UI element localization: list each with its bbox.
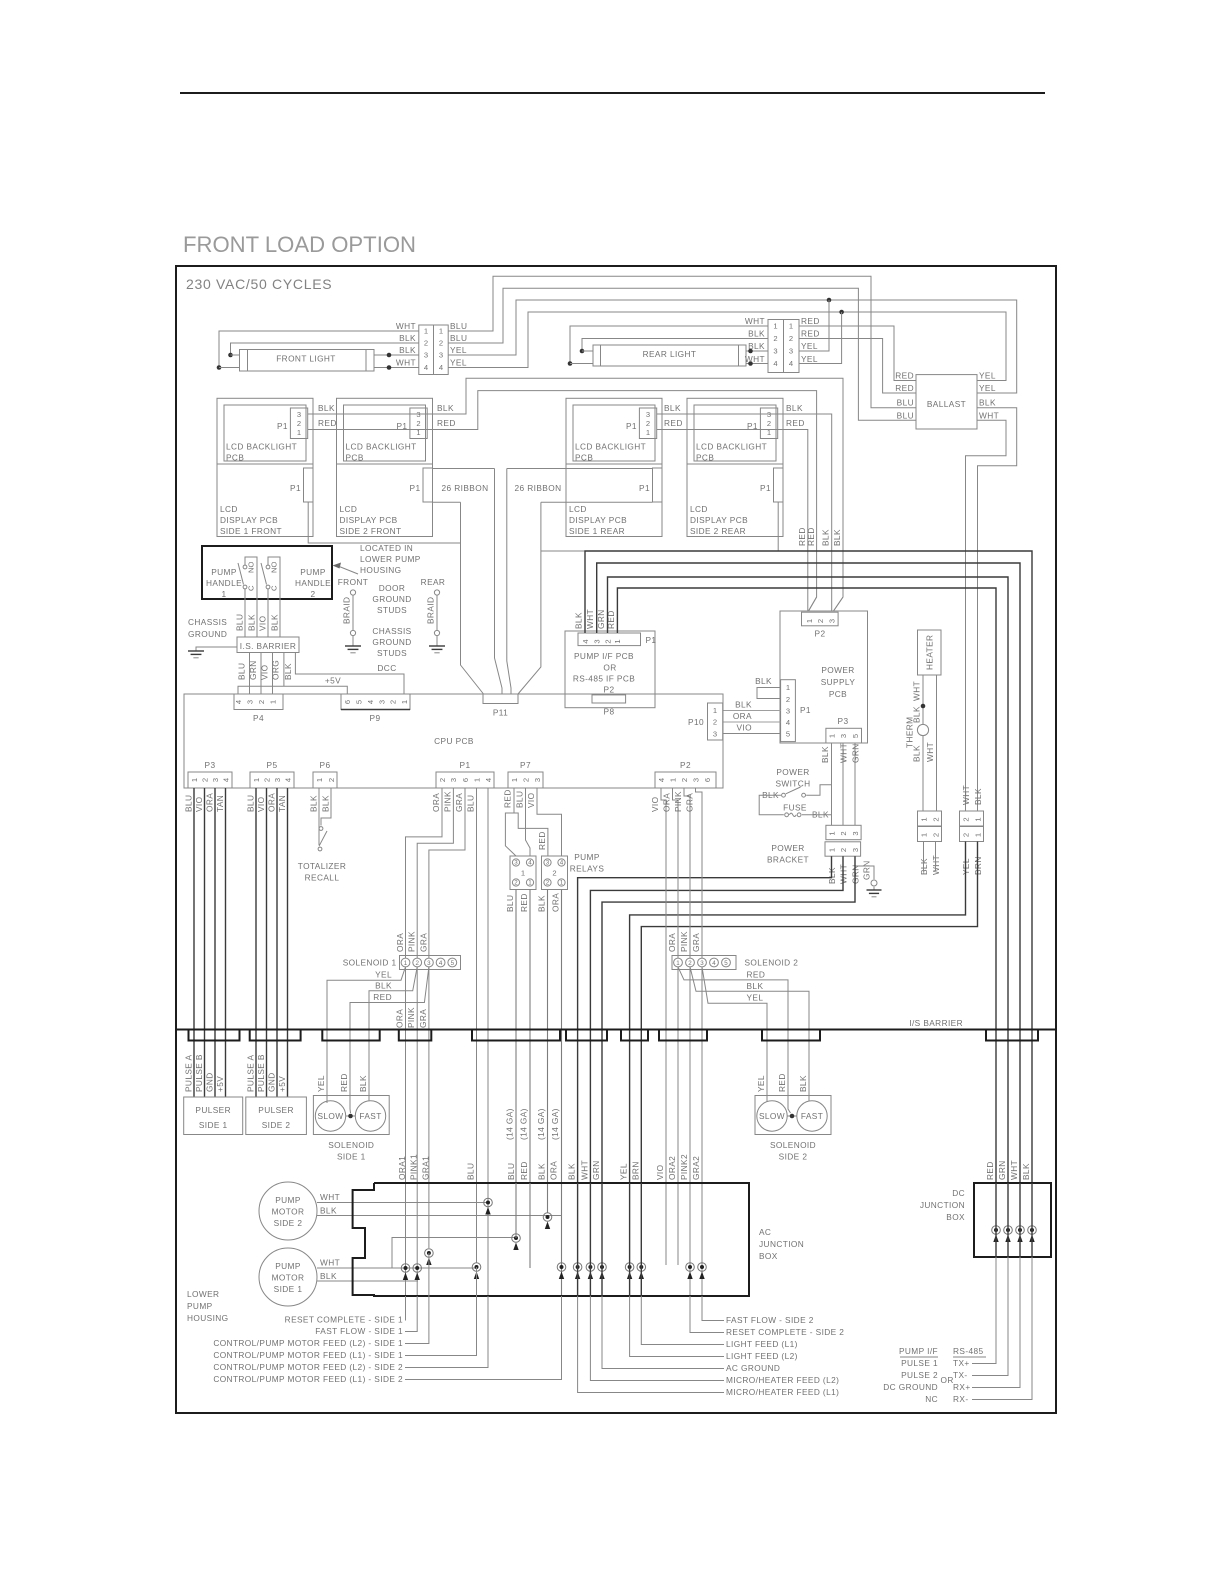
svg-text:PUMP: PUMP: [211, 567, 237, 577]
svg-text:BLK: BLK: [375, 980, 392, 990]
solenoid 2 connector: [672, 956, 736, 970]
svg-text:4: 4: [366, 700, 375, 704]
svg-text:BOX: BOX: [946, 1212, 965, 1222]
svg-text:1: 1: [472, 778, 481, 782]
wire BLK motor side 1: [317, 1280, 418, 1282]
svg-text:BLK: BLK: [748, 329, 765, 339]
svg-text:3: 3: [789, 347, 793, 356]
svg-text:26 RIBBON: 26 RIBBON: [442, 483, 489, 493]
drawing border: [176, 266, 1056, 1413]
DC box terminals: [992, 1226, 1001, 1235]
svg-text:BLK: BLK: [832, 529, 842, 546]
svg-text:4: 4: [786, 718, 790, 727]
svg-text:STUDS: STUDS: [377, 648, 407, 658]
svg-text:4: 4: [581, 639, 590, 643]
svg-text:1: 1: [827, 734, 836, 738]
svg-text:HEATER: HEATER: [925, 635, 935, 670]
svg-text:1: 1: [252, 778, 261, 782]
svg-text:DISPLAY PCB: DISPLAY PCB: [690, 515, 748, 525]
svg-text:HOUSING: HOUSING: [360, 565, 402, 575]
svg-text:(14 GA): (14 GA): [550, 1108, 560, 1140]
svg-text:RED: RED: [318, 418, 337, 428]
svg-text:DC GROUND: DC GROUND: [883, 1382, 938, 1392]
svg-text:RX+: RX+: [953, 1382, 971, 1392]
svg-text:POWER: POWER: [821, 665, 854, 675]
svg-text:DOOR: DOOR: [379, 583, 406, 593]
wire BLK 14GA relay2 to AC box: [547, 890, 549, 1214]
wire GRN bracket to AC box: [602, 856, 855, 1183]
svg-text:SIDE 2: SIDE 2: [262, 1120, 291, 1130]
svg-text:VIO: VIO: [258, 615, 268, 631]
svg-text:ORA: ORA: [267, 793, 277, 812]
svg-text:BLU: BLU: [246, 795, 256, 812]
wire VIO P7-3 to relay 2: [537, 788, 562, 856]
AC box terminals: [401, 1264, 410, 1273]
power supply PCB: [780, 611, 868, 743]
svg-text:3: 3: [839, 734, 848, 738]
wire switch left to fuse: [759, 795, 784, 815]
svg-text:YEL: YEL: [801, 354, 818, 364]
svg-text:1: 1: [713, 706, 717, 715]
svg-text:TOTALIZER: TOTALIZER: [298, 861, 346, 871]
svg-text:TX-: TX-: [953, 1370, 968, 1380]
svg-text:P2: P2: [680, 760, 691, 770]
pump relay 2: [542, 856, 568, 890]
svg-text:C: C: [270, 585, 279, 591]
svg-text:PULSER: PULSER: [195, 1105, 231, 1115]
svg-text:4: 4: [484, 778, 493, 782]
barrier brackets: [189, 1030, 240, 1041]
svg-text:SOLENOID: SOLENOID: [770, 1140, 816, 1150]
wire BLU P1-pin1 to AC box: [476, 788, 478, 1263]
svg-text:BLK: BLK: [537, 1163, 547, 1180]
svg-text:FAST FLOW - SIDE 1: FAST FLOW - SIDE 1: [315, 1326, 403, 1336]
svg-text:BLU: BLU: [184, 795, 194, 812]
svg-text:+5V: +5V: [215, 1076, 225, 1092]
wire BLK P10-1 to P1-3: [723, 710, 781, 712]
svg-text:1: 1: [919, 833, 928, 837]
svg-text:2: 2: [931, 833, 940, 837]
svg-text:2: 2: [680, 778, 689, 782]
wire YEL solenoid 2: [702, 967, 767, 1097]
wires solenoid 1 to AC box: [405, 967, 407, 1296]
svg-text:GRN: GRN: [862, 860, 872, 880]
connector pair heater BLK WHT: [918, 811, 942, 826]
svg-text:26 RIBBON: 26 RIBBON: [515, 483, 562, 493]
svg-text:P1: P1: [760, 483, 771, 493]
connector P2 CPU: [655, 772, 716, 788]
connector pair ballast BLK WHT to YEL BRN: [960, 811, 984, 826]
svg-text:RED: RED: [537, 831, 547, 850]
svg-text:VIO: VIO: [526, 792, 536, 808]
svg-text:2: 2: [327, 778, 336, 782]
svg-text:SWITCH: SWITCH: [775, 779, 810, 789]
svg-text:CONTROL/PUMP MOTOR FEED (L1) -: CONTROL/PUMP MOTOR FEED (L1) - SIDE 1: [213, 1350, 403, 1360]
svg-text:C: C: [247, 585, 256, 591]
wire slant marks into P2: [809, 597, 817, 611]
svg-text:LCD: LCD: [340, 504, 358, 514]
svg-text:PCB: PCB: [346, 452, 364, 462]
totalizer recall switch: [318, 788, 320, 845]
svg-text:2: 2: [388, 700, 397, 704]
svg-text:BLK: BLK: [979, 398, 996, 408]
svg-text:PINK: PINK: [679, 931, 689, 952]
svg-text:RED: RED: [519, 1161, 529, 1180]
svg-text:DISPLAY PCB: DISPLAY PCB: [340, 515, 398, 525]
svg-text:(14 GA): (14 GA): [505, 1108, 515, 1140]
svg-text:BLK: BLK: [748, 341, 765, 351]
svg-text:P8: P8: [604, 707, 615, 717]
svg-text:RELAYS: RELAYS: [570, 864, 605, 874]
svg-text:GRN: GRN: [248, 660, 258, 680]
svg-text:2: 2: [961, 817, 970, 821]
svg-text:1: 1: [919, 817, 928, 821]
wire RED front backlights: [308, 391, 817, 611]
svg-text:AC GROUND: AC GROUND: [726, 1363, 780, 1373]
svg-text:LOCATED IN: LOCATED IN: [360, 543, 413, 553]
svg-text:1: 1: [439, 327, 443, 336]
svg-text:YEL: YEL: [316, 1075, 326, 1092]
wires P5 to pulser side 2: [255, 788, 257, 1097]
svg-text:BALLAST: BALLAST: [927, 399, 966, 409]
svg-text:2: 2: [786, 695, 790, 704]
svg-text:BLK: BLK: [820, 746, 830, 763]
svg-text:RED: RED: [373, 992, 392, 1002]
svg-text:3: 3: [533, 778, 542, 782]
svg-text:GND: GND: [205, 1072, 215, 1092]
wire BLK P3-1 to bracket: [831, 743, 833, 825]
svg-text:PUMP: PUMP: [574, 852, 600, 862]
connector P9: [341, 694, 410, 710]
svg-text:2: 2: [646, 419, 650, 428]
pump handle switches box: [202, 546, 332, 599]
pulser side 1: [184, 1097, 243, 1135]
svg-text:WHT: WHT: [745, 354, 765, 364]
svg-text:BLK: BLK: [321, 795, 331, 812]
svg-text:RED: RED: [339, 1073, 349, 1092]
svg-text:PUMP: PUMP: [187, 1301, 213, 1311]
svg-text:P1: P1: [410, 483, 421, 493]
svg-text:+5V: +5V: [325, 676, 341, 686]
svg-text:REAR: REAR: [421, 577, 446, 587]
svg-text:OR: OR: [941, 1375, 954, 1385]
svg-text:CONTROL/PUMP MOTOR FEED (L2) -: CONTROL/PUMP MOTOR FEED (L2) - SIDE 1: [213, 1338, 403, 1348]
svg-text:RED: RED: [801, 329, 820, 339]
svg-text:NC: NC: [925, 1394, 938, 1404]
svg-text:VIO: VIO: [260, 664, 270, 680]
svg-text:2: 2: [262, 778, 271, 782]
connector P1 CPU: [436, 772, 494, 788]
svg-text:1: 1: [404, 960, 408, 967]
svg-text:RED: RED: [519, 893, 529, 912]
svg-text:ORA: ORA: [733, 711, 752, 721]
svg-text:3: 3: [514, 860, 518, 867]
svg-text:3: 3: [593, 639, 602, 643]
svg-text:BLU: BLU: [506, 1163, 516, 1180]
svg-text:6: 6: [461, 778, 470, 782]
LCD backlight PCB SIDE 1 FRONT: [217, 398, 313, 464]
svg-text:BLU: BLU: [897, 398, 914, 408]
svg-text:BLK: BLK: [437, 403, 454, 413]
svg-text:RED: RED: [606, 610, 616, 629]
svg-text:4: 4: [789, 359, 793, 368]
svg-text:3: 3: [424, 351, 428, 360]
svg-text:3: 3: [273, 778, 282, 782]
svg-text:YEL: YEL: [979, 371, 996, 381]
svg-text:RED: RED: [801, 316, 820, 326]
svg-text:DISPLAY PCB: DISPLAY PCB: [220, 515, 278, 525]
wires ORA PINK GRA P1 to solenoid 1: [406, 788, 443, 958]
svg-text:BLK: BLK: [399, 345, 416, 355]
svg-text:BLU: BLU: [897, 410, 914, 420]
connector P3 power supply: [826, 728, 862, 743]
svg-text:1: 1: [190, 778, 199, 782]
svg-text:P4: P4: [253, 713, 264, 723]
svg-text:ORA: ORA: [431, 793, 441, 812]
svg-text:3: 3: [416, 410, 420, 419]
svg-text:RED: RED: [747, 969, 766, 979]
svg-text:1: 1: [510, 778, 519, 782]
pump relay 1: [510, 856, 536, 890]
wire WHT motor side 1: [317, 1267, 477, 1269]
svg-text:STUDS: STUDS: [377, 605, 407, 615]
svg-text:MOTOR: MOTOR: [272, 1273, 305, 1283]
LCD backlight PCB SIDE 2 FRONT: [337, 398, 433, 464]
svg-text:FAST FLOW - SIDE 2: FAST FLOW - SIDE 2: [726, 1315, 814, 1325]
connector P10: [708, 703, 723, 740]
svg-text:WHT: WHT: [396, 321, 416, 331]
connector P11: [483, 694, 518, 704]
svg-text:4: 4: [560, 860, 564, 867]
svg-text:SIDE 2 FRONT: SIDE 2 FRONT: [340, 526, 402, 536]
svg-text:BLK: BLK: [309, 795, 319, 812]
svg-text:BRAID: BRAID: [342, 597, 352, 624]
I.S. barrier module: [237, 637, 299, 653]
svg-text:RED: RED: [437, 418, 456, 428]
LCD backlight PCB SIDE 2 REAR: [687, 398, 783, 464]
svg-text:P10: P10: [688, 717, 704, 727]
svg-text:PULSE B: PULSE B: [194, 1054, 204, 1092]
svg-text:PUMP: PUMP: [275, 1195, 301, 1205]
svg-text:1: 1: [786, 683, 790, 692]
svg-text:3: 3: [449, 778, 458, 782]
svg-text:HOUSING: HOUSING: [187, 1313, 229, 1323]
svg-text:WHT: WHT: [1009, 1160, 1019, 1180]
svg-text:GROUND: GROUND: [188, 629, 227, 639]
svg-text:1: 1: [676, 960, 680, 967]
pump handle switch 1: [243, 565, 247, 569]
svg-text:SOLENOID 2: SOLENOID 2: [745, 958, 799, 968]
pump handle switch 2: [266, 565, 270, 569]
LCD display PCB SIDE 2 FRONT: [337, 464, 433, 537]
svg-text:RED: RED: [503, 789, 513, 808]
wires DC box to RS-485 callouts: [972, 1257, 996, 1364]
svg-text:ORA: ORA: [395, 933, 405, 952]
pump motor side 2: [259, 1182, 317, 1240]
wire DCC: [295, 653, 404, 695]
svg-text:GRA: GRA: [418, 933, 428, 952]
svg-text:SIDE 2 REAR: SIDE 2 REAR: [690, 526, 746, 536]
svg-text:PCB: PCB: [575, 452, 593, 462]
svg-text:PULSE A: PULSE A: [184, 1055, 194, 1092]
front light lamp: [240, 350, 375, 372]
wire switch right to P3 BLK: [806, 785, 831, 795]
wire RED 14GA relay1 to AC box: [529, 890, 531, 1184]
svg-text:BLU: BLU: [466, 1163, 476, 1180]
svg-text:LOWER: LOWER: [187, 1289, 219, 1299]
ribbon cable side 1 front: [308, 502, 460, 543]
svg-text:BLK: BLK: [747, 981, 764, 991]
ribbon bus side 2 front to P11: [433, 468, 495, 470]
svg-text:BLK: BLK: [786, 403, 803, 413]
svg-text:2: 2: [514, 880, 518, 887]
wire RED solenoid 1: [350, 967, 429, 1097]
svg-text:SLOW: SLOW: [759, 1111, 785, 1121]
wire WHT front light pin1: [219, 331, 419, 368]
wire BLU front pin1 to ballast BLU: [448, 276, 916, 408]
svg-text:SIDE 1: SIDE 1: [274, 1284, 303, 1294]
svg-text:BLK: BLK: [973, 788, 983, 805]
svg-text:BLK: BLK: [318, 403, 335, 413]
svg-text:1: 1: [827, 831, 836, 835]
svg-text:SIDE 2: SIDE 2: [779, 1152, 808, 1162]
svg-text:4: 4: [657, 778, 666, 782]
svg-text:JUNCTION: JUNCTION: [920, 1200, 965, 1210]
svg-text:2: 2: [200, 778, 209, 782]
svg-text:1: 1: [789, 322, 793, 331]
wires AC mains columns inside box: [577, 1183, 579, 1296]
wire YEL front pin3 to ballast YEL2: [448, 300, 1017, 393]
svg-text:2: 2: [773, 334, 777, 343]
svg-text:WHT: WHT: [585, 609, 595, 629]
svg-text:RS-485 IF PCB: RS-485 IF PCB: [573, 674, 635, 684]
svg-text:PUMP I/F PCB: PUMP I/F PCB: [574, 651, 634, 661]
svg-text:PULSER: PULSER: [258, 1105, 294, 1115]
svg-text:230 VAC/50 CYCLES: 230 VAC/50 CYCLES: [186, 276, 332, 292]
wire GRN P3-5 to bracket: [854, 743, 856, 825]
svg-text:ORA: ORA: [551, 893, 561, 912]
svg-text:GRA: GRA: [691, 933, 701, 952]
svg-text:BLK: BLK: [247, 614, 257, 631]
wire +5V ORG: [283, 653, 285, 687]
svg-text:LCD: LCD: [690, 504, 708, 514]
connector P3 CPU: [188, 772, 232, 788]
svg-text:1: 1: [613, 639, 622, 643]
svg-text:4: 4: [283, 778, 292, 782]
svg-text:RESET COMPLETE - SIDE 1: RESET COMPLETE - SIDE 1: [285, 1315, 403, 1325]
wire WHT ballast to connector pair: [966, 420, 1007, 811]
wire BLK stub power supply P1 pin1: [757, 688, 781, 699]
svg-text:MICRO/HEATER FEED (L2): MICRO/HEATER FEED (L2): [726, 1375, 839, 1385]
top rule: [180, 92, 1045, 94]
connector P2 power supply: [802, 612, 839, 626]
connector J2 rear light: [768, 320, 784, 373]
svg-text:VIO: VIO: [655, 1164, 665, 1180]
svg-text:BLK: BLK: [567, 1163, 577, 1180]
svg-text:GRN: GRN: [997, 1160, 1007, 1180]
svg-text:VIO: VIO: [194, 796, 204, 812]
svg-text:2: 2: [310, 589, 315, 599]
svg-text:1: 1: [528, 880, 532, 887]
wire GRN pump I/F to DC junction: [608, 577, 1009, 1183]
svg-text:+5V: +5V: [277, 1076, 287, 1092]
svg-text:1: 1: [297, 428, 301, 437]
svg-text:P5: P5: [267, 760, 278, 770]
svg-text:BLK: BLK: [537, 895, 547, 912]
svg-text:RED: RED: [806, 527, 816, 546]
svg-text:4: 4: [221, 778, 230, 782]
svg-text:RESET COMPLETE - SIDE 2: RESET COMPLETE - SIDE 2: [726, 1327, 844, 1337]
svg-text:P1: P1: [626, 421, 637, 431]
svg-text:ORA1: ORA1: [397, 1156, 407, 1180]
svg-text:AC: AC: [759, 1227, 771, 1237]
svg-text:PCB: PCB: [696, 452, 714, 462]
svg-text:RED: RED: [985, 1161, 995, 1180]
svg-text:REAR LIGHT: REAR LIGHT: [643, 349, 697, 359]
svg-text:YEL: YEL: [619, 1163, 629, 1180]
svg-text:3: 3: [691, 778, 700, 782]
svg-text:FRONT LIGHT: FRONT LIGHT: [276, 354, 336, 364]
wire BLK rear light pin2: [582, 339, 768, 352]
wire ORA 14GA relay2 to AC box: [561, 890, 563, 1297]
wire WHT front light pin4: [374, 367, 419, 369]
svg-text:PUMP: PUMP: [300, 567, 326, 577]
wire WHT pump I/F to DC junction: [597, 563, 1020, 1183]
svg-text:2: 2: [552, 869, 556, 878]
wire RED P7-1 to relays: [505, 788, 516, 856]
DC junction box: [974, 1183, 1051, 1257]
wire ORA P10-2 to P1-4: [723, 721, 781, 723]
svg-text:PULSE 1: PULSE 1: [901, 1358, 938, 1368]
svg-text:2: 2: [416, 419, 420, 428]
svg-text:BLK: BLK: [270, 614, 280, 631]
svg-text:RED: RED: [786, 418, 805, 428]
svg-text:P1: P1: [460, 760, 471, 770]
svg-text:SIDE 1: SIDE 1: [199, 1120, 228, 1130]
svg-text:3: 3: [827, 619, 836, 623]
svg-text:PCB: PCB: [226, 452, 244, 462]
wire WHT rear light pin4: [746, 363, 768, 365]
wire WHT P3-3 to bracket: [842, 743, 844, 825]
wires pump handles to I.S. barrier: [244, 599, 246, 637]
wire BLK front light pin3: [374, 354, 419, 356]
svg-text:2: 2: [961, 833, 970, 837]
svg-text:LIGHT FEED (L1): LIGHT FEED (L1): [726, 1339, 798, 1349]
wires control columns below terminals: [428, 1253, 430, 1296]
svg-text:1: 1: [268, 700, 277, 704]
svg-text:5: 5: [724, 960, 728, 967]
svg-text:LIGHT FEED (L2): LIGHT FEED (L2): [726, 1351, 798, 1361]
svg-text:3: 3: [851, 831, 860, 835]
wire RED pump I/F to DC junction: [617, 588, 996, 1183]
svg-text:LCD BACKLIGHT: LCD BACKLIGHT: [346, 442, 417, 452]
svg-text:PINK: PINK: [407, 931, 417, 952]
svg-text:1: 1: [646, 428, 650, 437]
svg-text:1: 1: [400, 700, 409, 704]
wires P3 to pulser side 1: [193, 788, 195, 1097]
svg-text:BLU: BLU: [450, 321, 467, 331]
svg-text:BOX: BOX: [759, 1251, 778, 1261]
AC junction box: [353, 1183, 749, 1296]
wire BLK rear backlights: [657, 414, 832, 611]
svg-text:BLK: BLK: [574, 612, 584, 629]
svg-text:5: 5: [851, 734, 860, 738]
svg-text:GRA: GRA: [454, 793, 464, 812]
svg-text:PINK1: PINK1: [409, 1154, 419, 1180]
svg-text:ORA: ORA: [667, 933, 677, 952]
svg-text:WHT: WHT: [961, 785, 971, 805]
svg-text:GRA: GRA: [685, 793, 695, 812]
